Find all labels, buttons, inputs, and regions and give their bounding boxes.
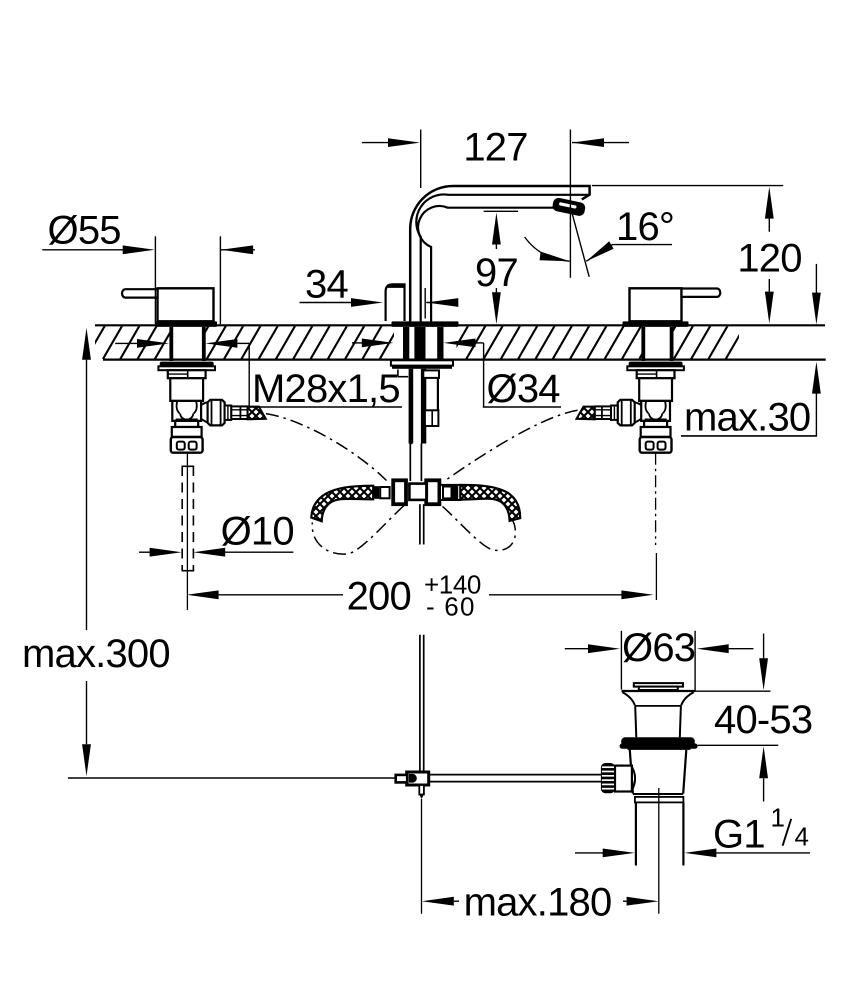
dimension 34 extension line: [424, 288, 426, 319]
braided hose stub: [248, 407, 266, 420]
dimension 120 extension line: [592, 185, 783, 187]
svg-text:Ø10: Ø10: [221, 509, 294, 553]
threaded shank nut: [637, 370, 675, 378]
dimension O55 extension lines: [154, 236, 156, 324]
tee left hose nut: [393, 480, 406, 504]
svg-text:max.30: max.30: [684, 396, 810, 440]
rubber seal ring: [621, 737, 695, 746]
dimension O55: [42, 249, 123, 251]
dimension max.300: [82, 328, 91, 360]
svg-text:Ø55: Ø55: [48, 209, 121, 253]
knob connector: [615, 766, 632, 792]
16 degree leader: [586, 245, 672, 262]
dimension 34: [300, 302, 353, 304]
washer (dark): [629, 362, 683, 367]
threaded shank nut: [168, 370, 206, 378]
spout inner/bottom edge line: [418, 206, 554, 321]
svg-text:G1: G1: [713, 813, 765, 857]
outlet shoulder transition: [635, 402, 642, 422]
dimension max.30: [815, 264, 817, 293]
dashed pipe O10 outline: [181, 466, 183, 571]
svg-text:Ø34: Ø34: [487, 367, 561, 411]
drain body bottom flange: [633, 793, 683, 795]
outlet compression nut: [208, 400, 225, 426]
dimension 40-53: [763, 634, 765, 660]
svg-text:Ø63: Ø63: [622, 626, 695, 670]
drain plug cap: [634, 683, 683, 687]
valve mid-section with seat: [172, 401, 201, 421]
svg-text:127: 127: [463, 126, 527, 170]
right handle base plate: [623, 321, 689, 327]
outlet shoulder transition: [201, 402, 208, 422]
outlet compression nut: [618, 400, 635, 426]
tee center block: [409, 484, 426, 500]
valve bottom cap nut: [640, 437, 672, 453]
dimension max.180: [422, 897, 454, 906]
dimension 97 extension tick: [484, 210, 518, 212]
countertop bottom line: [103, 359, 826, 361]
pop-up rod vertical (interrupted by 200-dimension text): [419, 504, 421, 544]
coupling left block: [396, 775, 408, 783]
label O34: [483, 406, 561, 408]
right braided hose loop: [460, 485, 520, 521]
label M28x1,5 leader arrows: [115, 342, 138, 344]
right hose channel wall: [437, 370, 439, 426]
svg-text:40-53: 40-53: [714, 698, 812, 742]
hose path dash-dot: left valve to tee: [266, 414, 387, 481]
washer side ticks: [397, 369, 399, 376]
outlet tube: [595, 406, 611, 419]
spout middle edge line: [416, 194, 589, 321]
valve neck: [644, 421, 667, 427]
label M28x1,5: [249, 406, 402, 408]
knurled actuator knob: [601, 763, 615, 793]
svg-text:34: 34: [305, 262, 348, 306]
svg-text:200: 200: [347, 575, 411, 619]
faucet centreline lower: [421, 799, 423, 914]
left handle lever: [122, 288, 214, 321]
dimension O10: [139, 551, 150, 553]
valve bottom cap nut: [171, 437, 203, 453]
pop-up pull rod (34 ref): [386, 284, 405, 321]
spout shank through countertop: [403, 327, 409, 362]
left handle base plate: [156, 321, 217, 327]
16 degree arc: [525, 237, 570, 261]
tee right tube: [440, 485, 461, 500]
drain flange top: [622, 690, 695, 692]
left valve centerline: [186, 453, 188, 610]
svg-text:M28x1,5: M28x1,5: [252, 367, 400, 411]
drain neck curves: [622, 692, 694, 705]
svg-text:1: 1: [771, 802, 785, 832]
channel top spacer box: [423, 370, 439, 378]
dimension 120: [765, 187, 774, 219]
svg-text:120: 120: [737, 237, 801, 281]
valve body: [170, 378, 203, 401]
dimension 97: [492, 213, 501, 245]
svg-text:max.300: max.300: [22, 632, 170, 676]
tee right hose nut: [426, 480, 439, 504]
tube lower narrow part: [409, 444, 411, 482]
svg-text:max.180: max.180: [464, 880, 612, 924]
spout outer contour: [410, 186, 589, 322]
countertop top surface line: [95, 324, 825, 326]
drain body: [628, 748, 691, 750]
svg-text:4: 4: [795, 822, 809, 852]
outlet adapter: [225, 406, 232, 420]
dimension 40-53 reference lines: [695, 690, 771, 692]
drain neck cylinder: [635, 706, 636, 737]
spout mounting washer (white, black base): [391, 360, 453, 365]
drain centreline: [658, 788, 660, 914]
spout supply tube walls: [409, 369, 414, 444]
valve neck: [175, 421, 198, 427]
pop-up rod coupling: [407, 772, 429, 785]
outlet tube G1 1/4: [635, 802, 637, 865]
outlet adapter: [611, 406, 618, 420]
dimension 127 extension lines: [420, 130, 422, 189]
valve mid-section with seat: [641, 401, 670, 421]
dimension G1 1/4: [575, 852, 604, 854]
washer (white): [627, 366, 684, 370]
aerator outlet (tilted, filled): [552, 197, 587, 217]
right valve shank through countertop: [641, 327, 645, 361]
svg-text:- 60: - 60: [426, 592, 476, 622]
valve lower nut: [641, 427, 671, 437]
tee left tube: [373, 486, 379, 499]
countertop slab hatching: [85, 325, 780, 361]
dimension 200 +140/-60: [187, 590, 219, 599]
dimension 127: [362, 142, 388, 144]
16 degree tilted line: [570, 207, 589, 277]
braided hose stub: [577, 407, 595, 420]
spout base plate: [392, 321, 459, 327]
label O34 leader arrows: [352, 342, 363, 344]
hose path dash-dot: right valve to tee: [446, 410, 578, 480]
right handle lever: [630, 288, 721, 321]
hose path dash-dot: right lower loop: [443, 507, 516, 551]
left braided hose loop: [311, 486, 373, 522]
dimension O63 extension lines: [620, 631, 622, 690]
valve lower nut: [172, 427, 202, 437]
valve body: [639, 378, 672, 401]
svg-text:16°: 16°: [616, 205, 674, 249]
hose path dash-dot: left lower loop: [312, 506, 404, 555]
right valve centerline (dash-dot): [655, 453, 657, 545]
rod reference line: [68, 777, 396, 779]
outlet coupling ring: [635, 797, 684, 803]
outlet tube: [231, 406, 247, 419]
rod lower stub: [419, 785, 424, 795]
hose nipple block: [425, 410, 439, 426]
pop-up rod horizontal to drain: [429, 774, 601, 776]
washer (white): [158, 366, 215, 370]
washer (dark): [160, 362, 214, 367]
dimension O63: [565, 648, 589, 650]
left valve shank through countertop: [169, 327, 173, 361]
